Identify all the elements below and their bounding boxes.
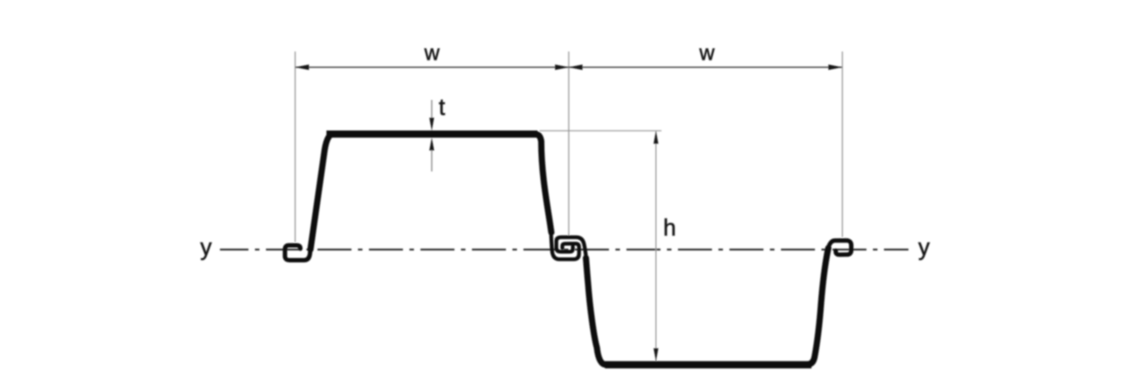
svg-text:y: y	[200, 234, 212, 260]
extension line center (w middle, x=568.3)	[568, 51, 570, 236]
arrowhead t upper (points down to flange top)	[429, 118, 434, 131]
sheet pile 1 body: left web, top flange, right web	[310, 134, 551, 249]
arrowhead w center-left (points left at center line)	[569, 65, 583, 70]
arrowhead t lower (points up to flange bottom)	[429, 138, 434, 151]
extension line right (w end, x=841.9)	[841, 51, 843, 237]
arrowhead w center-right (points right at center line)	[555, 65, 569, 70]
centerline y-y (dash-dot neutral axis)	[220, 249, 909, 251]
svg-text:w: w	[423, 42, 440, 65]
sheet pile 2 body: left web, bottom flange, right web	[586, 248, 828, 365]
interlock: sheet 2 end curl (tip, inner bottom, left side, outer top, web tail)	[556, 237, 586, 264]
arrowhead h bottom (points down)	[654, 348, 659, 361]
t dimension leader upper segment	[431, 100, 433, 119]
dimension line w (top, spans both panels)	[295, 66, 842, 68]
arrowhead w right (points right)	[828, 65, 842, 70]
top flange thickness band (overdraw)	[326, 130, 537, 137]
bottom flange thickness band (overdraw)	[605, 361, 812, 368]
sheet pile 2 right end hook (curl at y-axis)	[827, 240, 851, 254]
t dimension leader lower segment	[431, 150, 433, 172]
h extension line (from flange top to h dimension line)	[539, 130, 661, 132]
svg-text:t: t	[439, 94, 446, 120]
interlock: sheet 1 end curl (web tail, outer bottom, right side, inner top, tip)	[551, 233, 579, 259]
sheet pile 1 left end hook (curl at y-axis)	[285, 245, 311, 260]
arrowhead h top (points up)	[654, 131, 659, 144]
extension line left (w start, x=294.7)	[294, 51, 296, 242]
h dimension line (vertical)	[655, 131, 657, 361]
svg-text:y: y	[918, 234, 930, 260]
arrowhead w left (points left)	[295, 65, 309, 70]
svg-text:h: h	[663, 214, 676, 240]
svg-text:w: w	[698, 42, 715, 65]
